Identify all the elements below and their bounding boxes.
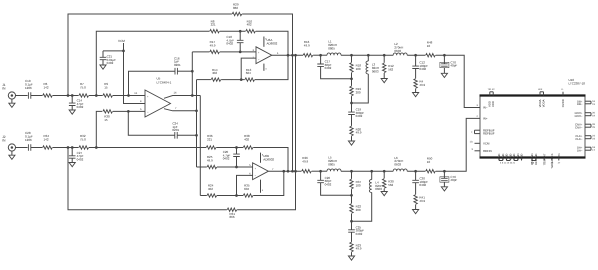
rail A junction (239, 30, 242, 33)
inductor L6 (393, 156, 407, 171)
bottom GND pins (498, 154, 524, 165)
svg-text:GND: GND (506, 154, 509, 160)
svg-text:0603: 0603 (394, 162, 401, 166)
svg-text:49.9: 49.9 (207, 159, 213, 163)
wire rail A from node B (96, 31, 209, 95)
resistor R6 (43, 82, 53, 97)
wire V2 out- riser (196, 80, 198, 167)
svg-text:40pF: 40pF (450, 178, 457, 182)
U6B V- stub (261, 180, 264, 193)
resistor R26 (302, 156, 312, 173)
svg-text:40pF: 40pF (450, 64, 457, 68)
wire R10 to U6A output node (256, 31, 288, 55)
junction C26 tap (319, 170, 322, 173)
svg-text:0402: 0402 (226, 42, 233, 46)
node A2-prime junction (71, 146, 74, 149)
wire rail B start (192, 51, 209, 53)
inductor L1 (327, 40, 341, 56)
wire U6B output (268, 170, 301, 172)
svg-text:REFBUF: REFBUF (483, 132, 495, 136)
pin DCO+ / minus pair (575, 111, 596, 118)
capacitor C24 feedback (128, 111, 196, 138)
rail A junction on U6A output (287, 54, 290, 57)
svg-text:75.0: 75.0 (80, 86, 86, 90)
U6A V- stub (264, 64, 267, 71)
pin DA+ / minus pair (577, 145, 596, 152)
wire R38 to U6B output node (253, 148, 288, 172)
junction C76 tap (443, 170, 446, 173)
svg-text:0402: 0402 (356, 114, 363, 118)
svg-text:1206: 1206 (25, 86, 32, 90)
svg-text:VDDA: VDDA (541, 99, 545, 107)
capacitor C20 (223, 148, 240, 168)
resistor R18 shunt (350, 55, 362, 79)
svg-text:LTC2387-18: LTC2387-18 (569, 81, 586, 85)
rail 1 junction (235, 146, 238, 149)
U5 output pin 14 wire (164, 92, 200, 99)
capacitor C14 to ground (69, 96, 84, 115)
junction C25 node (350, 220, 353, 223)
capacitor C27 to ground (69, 148, 84, 167)
wire R14 to R13 (221, 79, 245, 81)
svg-text:0402: 0402 (325, 66, 332, 70)
U6A -in wire (241, 58, 256, 80)
svg-text:CNV−: CNV− (575, 125, 583, 129)
ground at J2 (9, 151, 15, 160)
svg-text:221: 221 (207, 138, 212, 142)
capacitor C21 to ground (100, 51, 116, 69)
junction C12 tap (414, 54, 417, 57)
svg-text:VCM: VCM (118, 39, 125, 43)
svg-text:DB−: DB− (577, 102, 583, 106)
capacitor C12 (412, 55, 428, 78)
junction R18 tap (350, 54, 353, 57)
VCM branch junction (122, 50, 125, 53)
wire R7 to node B (89, 95, 103, 97)
svg-text:100: 100 (356, 67, 361, 71)
svg-text:DA−: DA− (577, 148, 583, 152)
resistor R35 (243, 184, 253, 198)
capacitor C17 (317, 55, 351, 79)
wire L6 to R50 (407, 170, 425, 172)
svg-text:866: 866 (230, 215, 235, 219)
svg-text:0603: 0603 (372, 69, 379, 73)
svg-text:49.9: 49.9 (304, 43, 310, 47)
junction R18-R19 (350, 77, 353, 80)
capacitor C28 (25, 131, 33, 151)
svg-text:0805: 0805 (328, 46, 335, 50)
wire R34 to node A-prime (53, 147, 79, 149)
pin IN- label (476, 104, 487, 109)
inductor L2 (393, 42, 407, 55)
junction C19 node (350, 102, 353, 105)
wire rail C start (197, 79, 211, 81)
C20 junction on rail 2 (235, 166, 238, 169)
resistor R31 feedback rail (68, 148, 296, 220)
svg-text:49.9: 49.9 (356, 131, 362, 135)
C24 junction on V2 (195, 134, 198, 137)
svg-text:402: 402 (244, 138, 249, 142)
connector J1 (IN) (2, 83, 15, 99)
resistor R48 (426, 41, 436, 57)
resistor R41 to ground (413, 195, 426, 214)
capacitor C16 feedback (129, 56, 193, 95)
capacitor C70 to ground (440, 55, 458, 77)
junction R37 tap (350, 170, 353, 173)
svg-text:IN+: IN+ (483, 117, 488, 121)
resistor R14 (211, 68, 221, 82)
svg-text:JP.R: JP.R (538, 88, 543, 91)
resistor R36 (206, 134, 216, 149)
capacitor C18 (226, 31, 243, 52)
svg-text:CLK−: CLK− (575, 137, 582, 141)
wire R25 to U6B +in (217, 166, 253, 168)
resistor R25 (207, 155, 217, 169)
svg-text:REFGND: REFGND (535, 154, 538, 165)
pin IN+ label (476, 115, 487, 120)
U6A V+ stub (264, 37, 267, 47)
resistor R29 feedback rail (68, 3, 293, 96)
capacitor C19 (348, 103, 364, 126)
svg-text:1206: 1206 (25, 138, 32, 142)
node A-prime junction (67, 146, 70, 149)
svg-text:VDD: VDD (491, 101, 495, 107)
svg-text:0402: 0402 (77, 157, 84, 161)
resistor R50 (426, 157, 436, 173)
node B junction (95, 94, 98, 97)
svg-text:49.9: 49.9 (210, 44, 216, 48)
resistor R23 to ground (348, 242, 361, 260)
svg-text:TWOLANES: TWOLANES (551, 153, 554, 168)
svg-text:221: 221 (211, 23, 216, 27)
resistor R30 (103, 110, 113, 122)
svg-text:AD8002: AD8002 (267, 42, 278, 46)
C18 junction on rail B (239, 51, 242, 54)
R35 junction on U6B output (282, 170, 285, 173)
svg-text:49.9: 49.9 (356, 247, 362, 251)
svg-text:562: 562 (388, 183, 393, 187)
svg-text:0201: 0201 (174, 63, 181, 67)
svg-text:75.0: 75.0 (80, 138, 86, 142)
wire R48 to ADC IN- (436, 55, 480, 107)
svg-text:GND: GND (502, 154, 505, 160)
resistor R20 to ground (348, 126, 361, 145)
wire R36 to R38 (216, 147, 243, 149)
svg-text:604: 604 (244, 187, 249, 191)
wire C28 to R34 (31, 147, 43, 149)
wire VCM to C21 (103, 50, 124, 52)
top stub pair VDD (488, 88, 496, 107)
U5 output pin 14 junction (191, 94, 194, 97)
wire L2 to R48 (407, 54, 425, 56)
svg-text:562: 562 (388, 67, 393, 71)
svg-text:GND: GND (509, 154, 512, 160)
wire R9 to U5 +in (113, 95, 145, 97)
svg-text:0402: 0402 (223, 157, 230, 161)
bottom PD pin (558, 154, 561, 165)
resistor R37 shunt (350, 171, 362, 195)
R29 junction on U6A output (291, 54, 294, 57)
svg-text:100: 100 (356, 184, 361, 188)
junction C17 tap (319, 54, 322, 57)
capacitor C76 to ground (440, 171, 458, 191)
bottom TWOLANES pin (551, 153, 554, 168)
svg-text:866: 866 (233, 6, 238, 10)
U6B -in wire (237, 175, 253, 195)
svg-text:49.9: 49.9 (419, 83, 425, 87)
op-amp U5 LTC6404-1 (145, 77, 172, 118)
resistor R38 (243, 134, 253, 149)
junction L3 tap (367, 54, 370, 57)
wire R13 to U6A output (255, 55, 288, 79)
ADC U10 LTC2387-18 body (480, 78, 586, 158)
inductor L3 shunt (352, 55, 380, 103)
wire J1 to C10 (15, 95, 27, 97)
ground at J1 (9, 99, 15, 108)
inductor L5 (327, 156, 341, 172)
svg-text:4 5 11 13 16 21: 4 5 11 13 16 21 (500, 162, 516, 165)
wire L1 to L2 (341, 54, 393, 56)
inductor L4 shunt (352, 171, 383, 221)
svg-text:VCM: VCM (483, 141, 490, 145)
svg-text:0603: 0603 (394, 49, 401, 53)
wire C10 to R6 (31, 95, 43, 97)
svg-text:GND: GND (521, 154, 524, 160)
wire rail 3 start (200, 195, 207, 197)
junction C70 tap (443, 54, 446, 57)
wire L5 to L6 (341, 170, 393, 172)
svg-text:402: 402 (208, 187, 213, 191)
resistor R16 (303, 40, 313, 57)
bottom TESTPAT pin (543, 153, 546, 165)
junction R37-R22 (350, 194, 353, 197)
svg-text:REFIN: REFIN (483, 149, 492, 153)
node C2 junction (127, 110, 130, 113)
svg-text:10: 10 (427, 44, 431, 48)
wire rail 2 start (197, 166, 207, 168)
pin DB+ / minus pair (577, 99, 596, 106)
svg-text:402: 402 (247, 23, 252, 27)
resistor R8 (210, 19, 220, 33)
resistor R34 (43, 134, 53, 149)
net label VCM (118, 39, 145, 104)
wire R16 to L1 (313, 54, 327, 56)
svg-text:142: 142 (44, 138, 49, 142)
svg-text:7,: 7, (471, 131, 473, 134)
svg-text:15: 15 (104, 118, 108, 122)
bottom REFGND pins (531, 154, 538, 165)
svg-text:0402: 0402 (419, 67, 426, 71)
junction R12 tap (383, 54, 386, 57)
resistor R12 to ground (381, 55, 394, 82)
wire V3 out+ dropper (199, 96, 201, 196)
wire R32 to R36 (89, 147, 206, 149)
svg-text:DCO−: DCO− (575, 114, 583, 118)
capacitor C30 (412, 171, 428, 194)
capacitor C26 (317, 171, 351, 195)
op-amp U6A AD8002 (256, 38, 278, 63)
resistor R22 shunt (350, 195, 362, 221)
svg-text:142: 142 (44, 86, 49, 90)
U6A -in junction on rail C (240, 78, 243, 81)
svg-text:GND: GND (498, 154, 501, 160)
node A junction (67, 94, 70, 97)
resistor R9 (103, 82, 113, 97)
wire R17 to U6A +in (220, 51, 256, 53)
junction C30 tap (414, 170, 417, 173)
svg-text:OVDD: OVDD (561, 99, 565, 107)
svg-text:GND: GND (517, 154, 520, 160)
resistor R17 (210, 40, 220, 53)
U6B V+ stub (261, 153, 264, 163)
wire R30 to U5 -in (113, 110, 145, 112)
svg-text:10,: 10, (470, 141, 474, 144)
R29 net junction on U6B output (291, 170, 294, 173)
capacitor C10 (25, 79, 33, 99)
node B-prime junction (95, 146, 98, 149)
wire R6 to node A (53, 95, 68, 97)
svg-text:49.9: 49.9 (419, 199, 425, 203)
R31 junction on U6B output (294, 170, 297, 173)
wire R35 to U6B output (253, 171, 284, 195)
U5 output pin 7 junction (195, 109, 198, 112)
wire R26 to L5 (312, 170, 327, 172)
R31 net junction on U6A output (294, 54, 297, 57)
wire node B2 up to R30 rail (96, 111, 102, 147)
resistor R24 (207, 184, 217, 198)
svg-text:0402: 0402 (325, 182, 332, 186)
svg-text:0201: 0201 (172, 128, 179, 132)
top stub OVDD (561, 88, 565, 107)
junction R30b tap (383, 170, 386, 173)
resistor R30 to ground (381, 171, 394, 196)
resistor R10 (246, 19, 256, 33)
svg-text:TP1 E2: TP1 E2 (488, 88, 496, 91)
svg-text:0805: 0805 (328, 162, 335, 166)
connector J2 (IN) (2, 135, 15, 151)
svg-text:0603: 0603 (375, 187, 382, 191)
U5 output pin 7 wire (164, 107, 197, 111)
svg-text:LTC6404-1: LTC6404-1 (157, 80, 172, 84)
svg-text:15: 15 (104, 86, 108, 90)
wire U6A output (272, 54, 303, 56)
top stub pair VDDA (538, 88, 546, 107)
rail 1 junction on U6B output (287, 170, 290, 173)
svg-text:0402: 0402 (107, 61, 114, 65)
resistor R13 (245, 68, 255, 82)
svg-text:10: 10 (427, 160, 431, 164)
wire R8 to R10 (220, 30, 246, 32)
op-amp U6B AD8002 (253, 154, 275, 179)
svg-text:604: 604 (246, 71, 251, 75)
pin CLK+ / minus pair (575, 134, 595, 141)
wire R24 to R35 (217, 195, 243, 197)
pin VCM stub (470, 141, 490, 146)
svg-text:200: 200 (356, 208, 361, 212)
U6B -in junction on rail 3 (235, 194, 238, 197)
pin REFBUF stubs (471, 128, 495, 135)
pin CNV+ / minus pair (575, 122, 596, 129)
svg-text:AD8002: AD8002 (263, 158, 274, 162)
wire J2 to C28 (15, 147, 27, 149)
resistor R32 (79, 134, 89, 149)
svg-text:402: 402 (212, 71, 217, 75)
C16 junction on V1 (191, 70, 194, 73)
node C junction (127, 94, 130, 97)
wire R50 to ADC IN+ (436, 118, 480, 171)
svg-text:200: 200 (356, 91, 361, 95)
svg-text:GND: GND (513, 154, 516, 160)
pin REFIN stub (472, 148, 492, 153)
svg-text:0402: 0402 (77, 105, 84, 109)
wire R31 net down to rail (295, 55, 297, 210)
wire node A to R7 (68, 95, 79, 97)
capacitor C25 (348, 221, 364, 242)
junction L4 tap (370, 170, 373, 173)
node A2 junction (71, 94, 74, 97)
svg-text:−PD: −PD (558, 154, 561, 159)
resistor R4 to ground (413, 79, 426, 97)
svg-text:49.9: 49.9 (302, 159, 308, 163)
resistor R7 (79, 82, 89, 97)
resistor R19 shunt (350, 79, 362, 103)
wire R29 net down to U6B output (292, 55, 294, 171)
wire V1 out+ riser (191, 52, 193, 96)
svg-text:0402: 0402 (356, 232, 363, 236)
svg-text:0402: 0402 (419, 183, 426, 187)
